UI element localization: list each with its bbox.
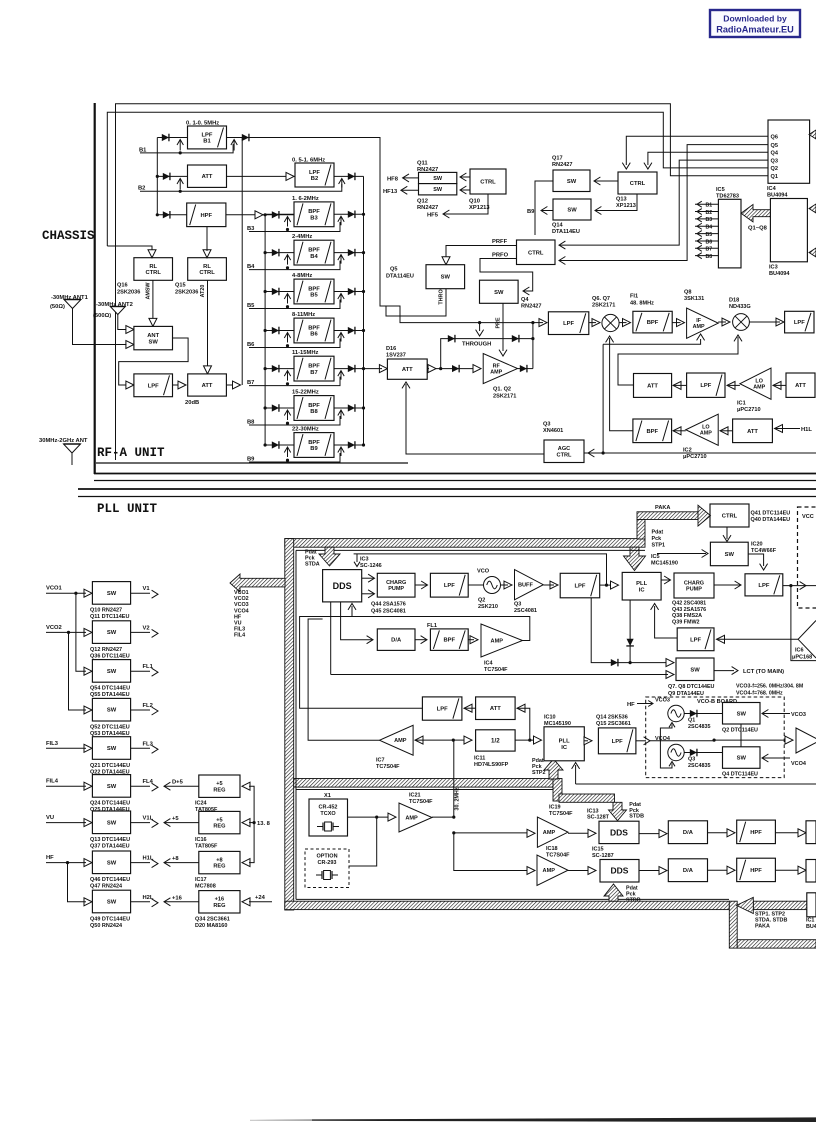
pin switch arrow B1 in bbox=[177, 140, 183, 155]
svg-text:DTA114EU: DTA114EU bbox=[386, 274, 414, 280]
label parts IC24 bbox=[195, 801, 218, 814]
pll PLL IC IC10 bbox=[544, 727, 584, 761]
svg-text:VU: VU bbox=[46, 815, 54, 821]
antenna 30MHz-2GHz bbox=[64, 444, 81, 453]
svg-text:RN2427: RN2427 bbox=[521, 304, 542, 310]
svg-text:TC7S04F: TC7S04F bbox=[549, 811, 573, 817]
diode D B1 in bbox=[162, 134, 169, 142]
node HPF B3 bbox=[264, 213, 267, 216]
svg-text:Q40 DTA144EU: Q40 DTA144EU bbox=[751, 517, 791, 523]
node bus B6 bbox=[264, 329, 267, 332]
pin switch arrow B1 out bbox=[231, 140, 237, 151]
svg-text:IC5: IC5 bbox=[716, 187, 725, 193]
svg-text:+5: +5 bbox=[172, 816, 179, 822]
regulator +5 REG IC24 bbox=[199, 775, 240, 797]
svg-text:HPF: HPF bbox=[750, 868, 762, 874]
svg-text:ANT: ANT bbox=[147, 333, 159, 339]
attenuator ATT row3 bbox=[733, 419, 773, 443]
arrow into half divider bbox=[464, 736, 472, 744]
arrow HPF out bbox=[255, 211, 263, 219]
arrow into right LPF bbox=[749, 318, 784, 326]
svg-text:Q3: Q3 bbox=[688, 757, 695, 763]
svg-text:SW: SW bbox=[725, 552, 735, 558]
pin B6 of IC5 bbox=[695, 238, 718, 245]
wire LPF to VCO bbox=[468, 584, 483, 586]
svg-text:AMP: AMP bbox=[543, 868, 556, 874]
svg-text:B3: B3 bbox=[310, 216, 318, 222]
svg-text:Q16: Q16 bbox=[117, 283, 128, 289]
net HF input bbox=[46, 855, 84, 863]
svg-text:FL1: FL1 bbox=[427, 623, 437, 629]
svg-text:VCO4-f=768. 0MHz: VCO4-f=768. 0MHz bbox=[736, 691, 783, 697]
ic IC5 TD62783 bbox=[718, 199, 741, 268]
pin switch arrow B2 out bbox=[339, 179, 345, 188]
arrow into ATT D16 bbox=[364, 365, 388, 373]
svg-text:BPF: BPF bbox=[308, 247, 320, 253]
label STP1 STP2 STDA STDB PAKA bbox=[755, 912, 787, 930]
label Pdat Pck STDB lower bbox=[626, 886, 641, 904]
svg-text:48. 8MHz: 48. 8MHz bbox=[630, 301, 654, 307]
svg-text:Q6. Q7: Q6. Q7 bbox=[592, 296, 610, 302]
svg-text:D+5: D+5 bbox=[172, 780, 184, 786]
svg-text:Q10 RN2427: Q10 RN2427 bbox=[90, 608, 122, 614]
bus arrow STP1 into PLL IC5 bbox=[624, 547, 646, 570]
label IC13 SC-1287 bbox=[587, 808, 610, 820]
pin Q1 of IC4 bbox=[771, 174, 778, 180]
svg-text:SW: SW bbox=[149, 339, 159, 345]
board VCO-B dashed box bbox=[646, 697, 785, 778]
label Pdat Pck STDB upper bbox=[629, 802, 644, 820]
svg-text:IC4: IC4 bbox=[767, 186, 777, 192]
arrow Q3 into CTRL PRFF bbox=[559, 160, 768, 249]
node bus B8 bbox=[264, 406, 267, 409]
svg-text:REG: REG bbox=[213, 864, 225, 870]
label 15-22MHz bbox=[292, 390, 319, 396]
diode D B8 out bbox=[348, 404, 355, 412]
svg-text:Q49 DTC144EU: Q49 DTC144EU bbox=[90, 916, 130, 922]
control RL CTRL Q15 bbox=[188, 258, 227, 281]
pin switch arrow B4 in bbox=[284, 255, 290, 270]
arrow into SW lct 2 bbox=[331, 671, 674, 679]
arrow into amp A bbox=[785, 736, 793, 744]
wire B3 bypass bbox=[249, 222, 340, 232]
svg-text:Q15: Q15 bbox=[175, 283, 186, 289]
svg-text:Q46 DTC144EU: Q46 DTC144EU bbox=[90, 877, 130, 883]
svg-text:BU4094: BU4094 bbox=[769, 271, 790, 277]
svg-text:FIL3: FIL3 bbox=[46, 741, 59, 747]
svg-text:(500Ω): (500Ω) bbox=[93, 313, 111, 319]
svg-text:RF-A UNIT: RF-A UNIT bbox=[97, 446, 165, 460]
net FL2 output bbox=[131, 703, 158, 715]
arrow into PLL IC10 bbox=[534, 736, 542, 744]
svg-text:μPC2710: μPC2710 bbox=[683, 454, 707, 460]
wire lpf2 to sw bbox=[591, 598, 668, 663]
wire ANT2 to ANT SW bbox=[118, 315, 127, 330]
svg-text:Q4 DTC114EU: Q4 DTC114EU bbox=[722, 772, 758, 778]
svg-text:FL1: FL1 bbox=[143, 664, 154, 670]
label X1 bbox=[324, 793, 331, 799]
ic IC4 BU4094 bbox=[768, 120, 810, 183]
svg-text:VCO2: VCO2 bbox=[234, 596, 249, 602]
diode D B5 in bbox=[272, 288, 279, 296]
pin Q6 of IC4 bbox=[771, 135, 778, 141]
svg-text:HF5: HF5 bbox=[427, 213, 439, 219]
wire THROUGH bbox=[441, 339, 533, 369]
dds DDS IC3 bbox=[323, 570, 362, 602]
svg-text:Downloaded by: Downloaded by bbox=[723, 14, 787, 24]
label Q1 2SC4835 bbox=[688, 718, 710, 731]
svg-text:SW: SW bbox=[737, 756, 747, 762]
node HPF row bbox=[156, 213, 159, 216]
arrow into SW V1 bbox=[84, 589, 92, 597]
svg-text:CTRL: CTRL bbox=[480, 180, 496, 186]
pin Q2 of IC4 bbox=[771, 166, 778, 172]
node through right bbox=[531, 337, 534, 340]
filter BPF B5 bbox=[294, 279, 334, 304]
diode D RF in bbox=[452, 365, 459, 373]
svg-text:B5: B5 bbox=[706, 232, 713, 238]
label Q4 RN2427 bbox=[521, 297, 542, 310]
diode D B3 in bbox=[272, 211, 279, 219]
amp AMP IC6 bbox=[798, 621, 816, 659]
svg-text:SC-1287: SC-1287 bbox=[592, 853, 614, 859]
svg-text:B6: B6 bbox=[706, 239, 713, 245]
svg-text:LPF: LPF bbox=[563, 321, 574, 327]
amp A right edge bbox=[796, 728, 816, 753]
wire B5 row bbox=[265, 291, 363, 293]
svg-text:Q24 DTC144EU: Q24 DTC144EU bbox=[90, 801, 130, 807]
node bus B9 bbox=[264, 443, 267, 446]
svg-text:AMP: AMP bbox=[405, 815, 418, 821]
svg-text:2SC4835: 2SC4835 bbox=[688, 724, 710, 730]
svg-text:IC16: IC16 bbox=[195, 837, 207, 843]
diode D Q1 2SC4835 bbox=[684, 710, 722, 718]
switch SW IC20 bbox=[710, 542, 748, 566]
svg-text:STP2: STP2 bbox=[532, 770, 545, 776]
svg-text:D/A: D/A bbox=[683, 868, 694, 874]
svg-text:BUFF: BUFF bbox=[518, 583, 533, 589]
switch SW FL1 bbox=[92, 660, 130, 683]
node busA B8 bbox=[362, 406, 365, 409]
svg-text:IC21: IC21 bbox=[409, 793, 421, 799]
svg-text:STDB: STDB bbox=[626, 898, 641, 904]
svg-text:TAT805F: TAT805F bbox=[195, 844, 218, 850]
antenna ANT1 bbox=[64, 300, 81, 309]
wire chassis ctrl run 2 bbox=[116, 104, 769, 460]
svg-text:IC1: IC1 bbox=[806, 918, 814, 924]
svg-text:μPC168: μPC168 bbox=[792, 655, 812, 661]
net VCO1 input bbox=[46, 586, 84, 594]
wire to DDS IC15 bbox=[568, 867, 596, 875]
ic IC3 BU4094 bbox=[770, 199, 807, 262]
amp AMP IC21 bbox=[399, 803, 432, 832]
arrow into RL CTRL Q16 bbox=[107, 246, 156, 258]
switch SW Q4 bbox=[480, 280, 519, 303]
svg-text:CTRL: CTRL bbox=[528, 250, 544, 256]
svg-text:XP1213: XP1213 bbox=[616, 203, 636, 209]
label 30.2MHz bbox=[455, 787, 461, 810]
arrow into mixer1 bbox=[589, 319, 600, 327]
svg-text:Q55 DTA144EU: Q55 DTA144EU bbox=[90, 692, 130, 698]
svg-text:11-15MHz: 11-15MHz bbox=[292, 350, 319, 356]
chassis inner box bottom bbox=[96, 462, 408, 464]
switch SW V1 bbox=[92, 582, 130, 605]
svg-text:Q37 DTA144EU: Q37 DTA144EU bbox=[90, 844, 130, 850]
pin Q4 of IC4 bbox=[771, 150, 779, 156]
filter BPF B6 bbox=[294, 318, 334, 343]
svg-text:TD62783: TD62783 bbox=[716, 194, 739, 200]
RF-A unit bottom border bbox=[94, 474, 816, 481]
label IC7 TC7S04F bbox=[376, 758, 400, 771]
pin Q5 of IC4 bbox=[771, 143, 778, 149]
wire SW IC20 down bbox=[657, 550, 768, 571]
wire HPF1 out bbox=[775, 821, 816, 844]
svg-text:15-22MHz: 15-22MHz bbox=[292, 390, 319, 396]
svg-text:BU4094: BU4094 bbox=[767, 193, 788, 199]
wire PRFF bbox=[442, 239, 517, 265]
arrow +5 out bbox=[164, 816, 199, 827]
svg-text:IC: IC bbox=[561, 745, 568, 751]
svg-text:30. 2MHz: 30. 2MHz bbox=[455, 787, 461, 810]
wire B3 row bbox=[265, 213, 363, 215]
svg-text:Q47 RN2424: Q47 RN2424 bbox=[90, 884, 123, 890]
svg-text:HPF: HPF bbox=[750, 830, 762, 836]
svg-text:CHASSIS: CHASSIS bbox=[42, 229, 95, 243]
filter LPF IC6 row bbox=[677, 628, 714, 651]
svg-text:B7: B7 bbox=[706, 247, 713, 253]
control CTRL Q41 bbox=[710, 504, 749, 527]
svg-text:PAKA: PAKA bbox=[755, 924, 770, 930]
label IC BU4094 partial bbox=[806, 918, 816, 931]
svg-text:Q9 DTA144EU: Q9 DTA144EU bbox=[668, 691, 704, 697]
wire HPF row bbox=[157, 214, 186, 216]
label Q15 2SK2036 bbox=[175, 283, 198, 296]
svg-text:Q8: Q8 bbox=[684, 290, 691, 296]
node B1 label bbox=[139, 148, 147, 154]
xtal box CR-452 TCXO bbox=[309, 799, 348, 836]
wire B5 bypass bbox=[249, 300, 340, 309]
svg-text:ATT: ATT bbox=[795, 383, 806, 389]
net V1L output bbox=[131, 816, 158, 828]
label parts IC16 bbox=[195, 837, 218, 850]
svg-text:PLL: PLL bbox=[559, 739, 570, 745]
arrow into chassis LPF bbox=[126, 381, 134, 389]
pin Q3 of IC4 bbox=[771, 158, 778, 164]
filter BPF row3 bbox=[633, 419, 672, 443]
switch ANT SW bbox=[134, 326, 173, 349]
node busA B7 bbox=[362, 367, 365, 370]
svg-text:X1: X1 bbox=[324, 793, 331, 799]
diode D pll vertical bbox=[626, 600, 634, 664]
svg-text:PAKA: PAKA bbox=[655, 505, 670, 511]
svg-text:AMP: AMP bbox=[491, 638, 504, 644]
net V2 output bbox=[131, 625, 158, 637]
label IC2 uPC2710 bbox=[683, 448, 707, 461]
wire HPF out bbox=[226, 214, 294, 216]
wire GHz ant bbox=[71, 453, 73, 465]
svg-text:2SK2036: 2SK2036 bbox=[117, 290, 140, 296]
label Q42 Q43 Q38 Q39 bbox=[672, 601, 706, 626]
wire LPF mid out bbox=[300, 617, 423, 709]
label IC10 MC145190 bbox=[544, 715, 571, 728]
wire +24 feed bbox=[249, 895, 272, 902]
svg-text:AMP: AMP bbox=[543, 830, 556, 836]
label Q2 2SK210 bbox=[478, 598, 498, 611]
control AGC CTRL bbox=[544, 440, 584, 463]
node B8 label bbox=[247, 420, 255, 426]
label Q6 Q7 2SK2171 bbox=[592, 296, 615, 309]
switch SW V1L bbox=[92, 811, 130, 834]
switch SW H2L bbox=[92, 890, 130, 913]
svg-text:Q2: Q2 bbox=[478, 598, 485, 604]
wire B7 bypass bbox=[249, 377, 340, 386]
bus frame bottom band bbox=[285, 901, 730, 909]
wire DA to BPF bbox=[415, 636, 427, 644]
svg-text:FL4: FL4 bbox=[143, 779, 154, 785]
arrow into LO AMP IC2 bbox=[720, 427, 733, 435]
svg-text:4-8MHz: 4-8MHz bbox=[292, 273, 312, 279]
arrow into LPF IC10 bbox=[584, 737, 592, 745]
svg-text:BPF: BPF bbox=[647, 320, 659, 326]
arrow mixer2 lo bbox=[618, 335, 742, 385]
arrow into AMP IC19 bbox=[527, 829, 535, 837]
svg-text:DDS: DDS bbox=[610, 827, 628, 837]
svg-text:IC: IC bbox=[639, 587, 646, 593]
label parts SW FL2 bbox=[90, 725, 130, 738]
pin B4 of IC5 bbox=[695, 223, 718, 230]
svg-text:Q53 DTA144EU: Q53 DTA144EU bbox=[90, 731, 130, 737]
svg-text:Q5: Q5 bbox=[390, 267, 397, 273]
svg-text:LPF: LPF bbox=[690, 637, 701, 643]
bus frame bottom band2 bbox=[737, 940, 816, 948]
svg-text:3SK131: 3SK131 bbox=[684, 296, 704, 302]
svg-text:B2: B2 bbox=[311, 176, 318, 182]
node busA B6 bbox=[362, 329, 365, 332]
badge border RadioAmateur.EU bbox=[710, 10, 800, 37]
amp RF AMP Q1 Q2 bbox=[483, 354, 517, 384]
svg-text:SW: SW bbox=[107, 784, 117, 790]
svg-text:SW: SW bbox=[107, 669, 117, 675]
diode D Q3 2SC4835 bbox=[684, 749, 722, 757]
label D18 ND433G bbox=[729, 298, 751, 311]
wire ANT1 to ANT SW bbox=[73, 309, 122, 345]
power VCC dashed box bbox=[798, 507, 816, 608]
svg-text:STDB: STDB bbox=[629, 814, 644, 820]
arrow into BUFF bbox=[501, 581, 513, 589]
label 4-8MHz bbox=[292, 273, 312, 279]
svg-text:SW: SW bbox=[107, 860, 117, 866]
charge pump Q42 Q43 bbox=[674, 573, 714, 598]
bus frame mid jog bbox=[553, 779, 562, 802]
label Q5 DTA114EU bbox=[386, 267, 414, 280]
wire B8 bypass bbox=[249, 416, 340, 425]
label 2-4MHz bbox=[292, 234, 312, 240]
label IC19 TC7S04F bbox=[549, 805, 573, 818]
diode D B7 out bbox=[348, 365, 355, 373]
arrow into IC3 right bbox=[809, 204, 816, 213]
svg-text:VCO3: VCO3 bbox=[791, 712, 806, 718]
label 22-30MHz bbox=[292, 427, 319, 433]
svg-text:B3: B3 bbox=[706, 217, 713, 223]
svg-text:STP1: STP1 bbox=[652, 543, 665, 549]
svg-text:B8: B8 bbox=[706, 254, 713, 260]
switch SW VCO4 bbox=[723, 747, 761, 769]
node VCOB out bbox=[713, 739, 789, 742]
svg-text:AMP: AMP bbox=[700, 431, 712, 437]
label Q10 XP1213 bbox=[469, 199, 490, 212]
svg-text:LPF: LPF bbox=[148, 383, 159, 389]
regulator +5 REG IC16 bbox=[199, 811, 240, 833]
svg-text:D18: D18 bbox=[729, 298, 739, 304]
arrow agc into IF AMP bbox=[603, 334, 705, 344]
svg-text:REG: REG bbox=[213, 824, 225, 830]
svg-text:2SC4081: 2SC4081 bbox=[514, 608, 537, 614]
net VCO3 in bbox=[762, 710, 806, 719]
svg-text:HF: HF bbox=[627, 702, 635, 708]
pin B3 of IC5 bbox=[695, 216, 718, 223]
svg-text:TC4W66F: TC4W66F bbox=[751, 548, 777, 554]
svg-text:1/2: 1/2 bbox=[491, 738, 500, 745]
svg-text:Q3: Q3 bbox=[543, 422, 550, 428]
label 0.1-0.5MHz bbox=[186, 121, 219, 127]
wire AMP IC7 out bbox=[308, 619, 379, 740]
arrow into REG IC17 bbox=[242, 859, 250, 867]
svg-text:CHARG: CHARG bbox=[386, 580, 406, 586]
svg-text:+16: +16 bbox=[215, 897, 225, 903]
svg-text:22-30MHz: 22-30MHz bbox=[292, 427, 319, 433]
filter BPF B8 bbox=[294, 396, 334, 421]
svg-text:TC7S04F: TC7S04F bbox=[376, 764, 400, 770]
svg-text:IC5: IC5 bbox=[651, 554, 660, 560]
wire B2 to bus bbox=[334, 175, 364, 177]
svg-text:VCO4: VCO4 bbox=[234, 608, 249, 614]
wire B4 row bbox=[265, 252, 363, 254]
label IC5 TD62783 bbox=[716, 187, 739, 200]
arrow AMSW into ANT SW bbox=[149, 318, 157, 326]
switch SW V2 bbox=[92, 621, 130, 644]
arrow Q5 into CTRL PRFF bbox=[559, 145, 768, 265]
svg-text:V1L: V1L bbox=[143, 816, 154, 822]
wire DDS to CHARG PUMP bbox=[362, 574, 375, 598]
svg-text:Q1: Q1 bbox=[771, 174, 778, 180]
ic partial right edge box bbox=[807, 893, 816, 917]
svg-text:REG: REG bbox=[213, 903, 225, 909]
net FL4 output bbox=[131, 779, 158, 791]
wire VCO3 feed bbox=[660, 723, 675, 741]
label parts IC17 bbox=[195, 877, 216, 890]
switch SW FL4 bbox=[92, 775, 130, 798]
wire DDS13 to DA bbox=[639, 830, 667, 838]
node 30MHz split bbox=[450, 739, 466, 742]
attenuator chassis ATT 20dB bbox=[188, 374, 227, 396]
arrow into post LPF bbox=[533, 319, 547, 327]
svg-text:+8: +8 bbox=[172, 856, 179, 862]
node B7 label bbox=[247, 380, 254, 386]
arrow into REG IC24 bbox=[242, 782, 250, 790]
amp LO AMP IC1 bbox=[740, 368, 771, 399]
amp AMP IC19 bbox=[537, 817, 568, 847]
svg-text:ATT: ATT bbox=[202, 174, 213, 180]
label 500ohm bbox=[93, 313, 111, 319]
svg-text:IC19: IC19 bbox=[549, 805, 561, 811]
pin switch arrow B5 out bbox=[338, 294, 344, 303]
label Q3 2SC4081 bbox=[514, 602, 537, 615]
svg-text:CTRL: CTRL bbox=[557, 452, 572, 458]
bus arrow into DDS IC13 bbox=[609, 802, 627, 820]
svg-text:MC145190: MC145190 bbox=[651, 561, 678, 567]
filter LPF mid bbox=[422, 697, 462, 720]
svg-text:IC3: IC3 bbox=[360, 557, 369, 563]
